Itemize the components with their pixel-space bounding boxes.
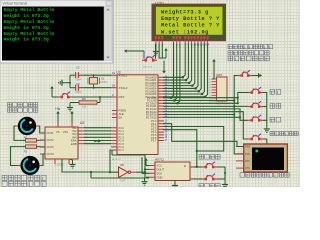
motor M1 (top) — [15, 117, 39, 135]
annotation metal sensor line1 (CJK) — [228, 45, 273, 49]
annotation nonempty metal left (CJK) — [2, 181, 46, 186]
svg-text:Virtual Terminal: Virtual Terminal — [3, 1, 28, 5]
svg-text:30pF: 30pF — [76, 91, 82, 94]
svg-text:RXD: RXD — [245, 146, 250, 149]
power +5V arrow above U3 — [162, 61, 166, 74]
wire R2 to U2 OUT3 — [38, 146, 45, 148]
svg-text:OUT1: OUT1 — [47, 131, 55, 135]
ground below HX711 — [172, 181, 178, 190]
svg-text:OUT3: OUT3 — [47, 145, 55, 149]
wire metal button left — [234, 76, 244, 155]
wire reset button to RST — [72, 96, 111, 98]
svg-text:8: 8 — [209, 98, 211, 100]
wire NOT output to DOUT net — [112, 150, 150, 177]
resistor R1 — [24, 137, 38, 143]
power +5V arrow above RP1 — [212, 59, 216, 79]
svg-text:Empty Metal Bottle: Empty Metal Bottle — [4, 31, 55, 37]
button right-3 — [248, 115, 263, 122]
annotation empty metal left (CJK) — [8, 108, 38, 112]
svg-text:BUTTON: BUTTON — [143, 66, 152, 68]
svg-text:XTAL1: XTAL1 — [119, 73, 128, 77]
svg-text:HX711: HX711 — [155, 158, 164, 162]
svg-text:3: 3 — [209, 84, 211, 86]
svg-text:19: 19 — [112, 71, 115, 75]
svg-text:EA: EA — [119, 116, 123, 120]
svg-text:Empty Bottle ? Y: Empty Bottle ? Y — [161, 16, 220, 22]
resistor pack RP1 (RESPACK-8) — [209, 73, 230, 106]
svg-text:P1.7: P1.7 — [119, 148, 125, 152]
ground below decrease button — [264, 125, 270, 133]
svg-text:ENB: ENB — [71, 142, 77, 146]
svg-text:Empty Metal Bottle: Empty Metal Bottle — [4, 19, 55, 25]
svg-text:RTS: RTS — [245, 160, 250, 163]
wire cap common vertical — [69, 75, 71, 88]
wires weight buttons — [194, 167, 228, 188]
label weight-increase (CJK) — [199, 155, 220, 160]
button weight decrease — [202, 174, 217, 181]
wire long bottom rail — [91, 177, 149, 179]
wire R3 to RST net — [99, 97, 101, 103]
virtual terminal VT1 window — [0, 0, 113, 63]
svg-text:VSS: VSS — [63, 130, 68, 134]
svg-text:9: 9 — [209, 101, 211, 103]
label right-3 (CJK) — [270, 117, 281, 122]
svg-text:12MHz: 12MHz — [100, 81, 108, 84]
button weight increase — [202, 162, 217, 169]
svg-text:P2.7/A15: P2.7/A15 — [146, 115, 157, 119]
svg-text:OUT2: OUT2 — [47, 138, 55, 142]
wires U2 inputs to U3 P1 — [84, 128, 111, 144]
wire U3 P1.7 to NOT input — [110, 150, 118, 172]
capacitor C2 — [70, 66, 84, 82]
wire C2 to XTAL1 — [84, 74, 111, 76]
wires right buttons to U3 P2 — [163, 93, 267, 145]
label right-1 (CJK) — [270, 90, 281, 95]
wire bus LCD data/ctrl to U3 P0/P2 — [163, 44, 208, 105]
svg-text:R3: R3 — [82, 97, 86, 101]
svg-text:U5: U5 — [120, 163, 124, 167]
svg-text:18: 18 — [112, 84, 115, 88]
microcontroller U3 (AT89C51) — [111, 71, 168, 161]
ground for crystal caps — [59, 80, 71, 86]
annotation metal sensor line3 (CJK) — [228, 56, 269, 61]
crystal X1 — [88, 75, 108, 88]
button metal sensor — [238, 70, 252, 77]
svg-text:RST: RST — [119, 95, 125, 99]
svg-text:AT89C51: AT89C51 — [112, 158, 122, 161]
power arrow U2 VS — [56, 111, 60, 123]
motor M2 (bottom) — [18, 156, 43, 175]
button serial send — [248, 134, 263, 141]
power arrow EN — [94, 139, 101, 143]
svg-text:1: 1 — [209, 79, 211, 81]
svg-text:6: 6 — [209, 93, 211, 95]
ground HX711 GND — [142, 177, 150, 185]
wire M2 left to R2 — [11, 147, 25, 166]
resistor R2 — [24, 145, 38, 153]
label +5v — [55, 107, 61, 111]
svg-text:P3.7: P3.7 — [151, 139, 157, 143]
svg-text:10k: 10k — [82, 105, 87, 109]
svg-text:2: 2 — [209, 82, 211, 84]
label serial send button (CJK) — [270, 132, 298, 136]
svg-text:Metal Bottle ? Y: Metal Bottle ? Y — [161, 23, 220, 29]
label weight-decrease (CJK) — [199, 184, 220, 189]
svg-text:TXD: TXD — [245, 153, 250, 156]
button right-2 — [248, 101, 263, 108]
svg-text:Weight is 073.3g: Weight is 073.3g — [4, 13, 49, 19]
LCD display LCD1 (LM016L) — [152, 4, 226, 43]
wire HX711 pins to buttons — [163, 127, 224, 168]
power arrow HX711 VCC — [144, 158, 149, 166]
svg-text:DOUT: DOUT — [157, 168, 165, 172]
annotation empty plastic right (CJK) — [8, 103, 38, 107]
wire C3 to XTAL2 — [84, 87, 111, 89]
svg-text:Empty Metal Bottle: Empty Metal Bottle — [4, 7, 55, 13]
annotation metal sensor line2 (CJK) — [228, 51, 269, 55]
svg-text:Weight=73.3 g: Weight=73.3 g — [161, 10, 209, 16]
wire U2 bottom to gnd rail — [62, 159, 111, 178]
virtual terminal component VT2 — [236, 144, 287, 172]
svg-text:9: 9 — [112, 93, 114, 97]
resistor R3 — [76, 97, 100, 109]
weight sensor module HX711 — [150, 158, 195, 181]
svg-text:17: 17 — [165, 139, 168, 142]
svg-text:GND: GND — [157, 175, 163, 179]
LCD VSS/VDD/VEE connections — [153, 44, 168, 59]
arrow right of metal button — [252, 73, 262, 77]
wire button K1 to LCD VSS — [155, 44, 157, 59]
svg-text:RP1: RP1 — [217, 73, 223, 77]
svg-text:U2: U2 — [80, 121, 84, 125]
power arrow U2 VSS — [70, 111, 74, 123]
annotation nonempty plastic right (CJK) — [2, 175, 46, 180]
wire M2 right to U2 OUT4 — [43, 154, 46, 166]
svg-text:5: 5 — [209, 90, 211, 92]
svg-text:Weight is 073.3g: Weight is 073.3g — [4, 37, 49, 43]
ground for R3 — [67, 103, 76, 112]
svg-text:4: 4 — [209, 87, 211, 89]
svg-text:VS: VS — [56, 130, 60, 134]
wire SCK to U3 — [141, 158, 150, 173]
motor driver U2 (L293D) — [40, 121, 88, 167]
svg-text:VCC: VCC — [157, 164, 163, 168]
ground U2 GND — [69, 159, 76, 168]
svg-text:C2: C2 — [76, 66, 80, 70]
svg-text:7: 7 — [209, 95, 211, 97]
wire from power arrow to button K1 — [124, 49, 144, 59]
power +5V arrow for reset button — [50, 86, 58, 97]
annotation serial port (CJK) — [240, 173, 289, 177]
svg-text:CTS: CTS — [245, 167, 250, 170]
svg-text:R2: R2 — [24, 150, 28, 153]
button K1 above U3 — [142, 55, 157, 68]
wire M1 right to U2 OUT1 — [39, 126, 45, 133]
NOT gate U5 — [119, 163, 131, 183]
svg-text:X1: X1 — [101, 77, 105, 81]
label right-2 (CJK) — [270, 104, 281, 109]
svg-text:OUT4: OUT4 — [47, 152, 55, 156]
svg-text:XTAL2: XTAL2 — [119, 86, 128, 90]
svg-text:L293D: L293D — [55, 163, 65, 167]
svg-text:30pF: 30pF — [76, 79, 82, 82]
svg-text:Weight is 073.3g: Weight is 073.3g — [4, 25, 49, 31]
button right-1 — [248, 87, 263, 94]
wire R1 to U2 OUT2 — [38, 139, 45, 141]
LCD pin numbers — [155, 42, 209, 46]
capacitor C3 — [70, 82, 84, 94]
wire M1 left to R1 — [14, 126, 24, 140]
label LCD1 — [155, 1, 164, 5]
svg-text:+5v: +5v — [55, 107, 61, 111]
svg-text:SCK: SCK — [157, 171, 163, 175]
svg-text:C3: C3 — [76, 82, 80, 86]
wires serial terminal — [163, 124, 244, 147]
svg-text:NOT: NOT — [120, 179, 126, 183]
reset button K0 — [58, 92, 72, 99]
